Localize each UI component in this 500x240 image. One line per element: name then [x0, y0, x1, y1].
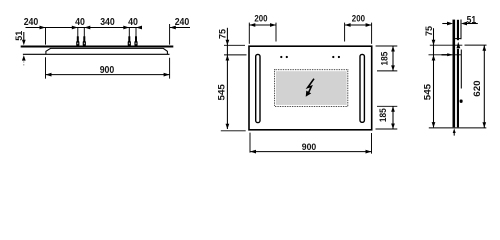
svg-text:185: 185	[378, 108, 388, 122]
side lower bracket bump	[460, 100, 463, 103]
620 arrow up	[482, 45, 486, 51]
545 arrow down tip mirror bottom	[226, 124, 230, 130]
side back bar	[457, 20, 459, 40]
top dim line main run	[26, 27, 142, 29]
mirror body back line	[23, 53, 170, 55]
200 right arrow right	[366, 23, 372, 27]
arrow left at x169.8	[170, 26, 176, 30]
900 arrow right	[164, 73, 170, 77]
side bracket back line	[460, 20, 462, 40]
svg-text:40: 40	[128, 17, 138, 28]
svg-text:900: 900	[302, 142, 317, 152]
svg-text:240: 240	[175, 17, 190, 28]
51 arrow down tip at glass top	[22, 40, 26, 46]
svg-text:75: 75	[424, 26, 434, 36]
side 545 arrow up tip y55	[432, 55, 436, 61]
900 middle arrow left	[250, 150, 256, 154]
185 lower arrow up	[391, 106, 395, 112]
svg-text:40: 40	[75, 17, 85, 28]
clip 3 barrel	[128, 36, 130, 41]
arrow right at x129.3	[123, 26, 129, 30]
200 left dim line	[249, 24, 276, 26]
arrow right at x45.5	[40, 26, 46, 30]
185 upper dim line	[392, 46, 394, 71]
185 lower dim line	[392, 106, 394, 129]
200 right dim line	[345, 24, 372, 26]
51 arrow left tip x461	[461, 22, 467, 26]
extension line x45.5	[45, 28, 47, 79]
620 dim line	[483, 45, 485, 127]
sensor dot 1	[280, 56, 282, 58]
clip extension line 3	[128, 28, 130, 38]
side ext line y45.2	[430, 44, 463, 46]
620 top ext line	[465, 44, 487, 46]
185 upper arrow down	[391, 65, 395, 71]
svg-text:185: 185	[379, 52, 389, 66]
svg-text:200: 200	[254, 13, 267, 23]
clip 1 barrel	[77, 36, 79, 41]
185 lower arrow down	[391, 124, 395, 130]
545 arrow up tip strip top	[226, 55, 230, 61]
mirror front rect	[249, 46, 372, 130]
arrow left at x84.3	[84, 26, 90, 30]
top dim line right 240 run	[170, 27, 190, 29]
900 middle dim line	[250, 151, 372, 153]
svg-text:545: 545	[217, 84, 227, 100]
mirror body white fill	[46, 48, 167, 54]
sensor dot 3	[332, 56, 334, 58]
200 left arrow right	[270, 23, 276, 27]
extension line x169.7	[169, 24, 171, 79]
185 upper arrow up	[391, 46, 395, 52]
200 extension line a	[248, 23, 250, 44]
ext line y130.3 middle	[221, 130, 246, 132]
900 middle arrow right	[366, 150, 372, 154]
clip 2 bead	[83, 41, 86, 46]
side hook ext line y54.8	[429, 54, 462, 56]
200 extension line c	[344, 23, 346, 42]
arrow right at x77.8	[72, 26, 78, 30]
900 arrow left	[46, 73, 52, 77]
svg-text:340: 340	[100, 17, 115, 28]
mirror body inner line with left jog	[46, 48, 167, 54]
side bracket wedge arrow up	[457, 42, 461, 48]
svg-text:200: 200	[352, 13, 365, 23]
svg-text:620: 620	[472, 80, 482, 96]
clip 4 barrel	[135, 36, 137, 41]
connection box grey fill	[276, 71, 347, 105]
51 grey tail	[23, 61, 25, 65]
200 left arrow left	[249, 23, 255, 27]
side left dim line vertical	[433, 28, 435, 127]
51 arrow right tip x453	[447, 22, 453, 26]
51 dim line upper	[23, 32, 25, 40]
51 arrow up tip at body bottom	[22, 55, 26, 61]
185 upper ext line y46	[376, 45, 398, 47]
lightning bolt	[308, 79, 314, 93]
side 75 arrow down tip y45.2	[432, 40, 436, 46]
side bracket bottom line	[455, 38, 461, 40]
side hook wedge	[442, 54, 448, 56]
clip extension line 1	[77, 28, 79, 38]
200 right arrow left	[345, 23, 351, 27]
svg-text:75: 75	[217, 29, 227, 39]
svg-text:545: 545	[423, 84, 433, 100]
75 arrow down tip mirror top	[226, 40, 230, 46]
svg-text:51: 51	[14, 31, 24, 41]
left light strip	[256, 54, 260, 122]
ext line y45.3 middle	[224, 44, 245, 46]
mirror glass bar (top view)	[21, 46, 174, 48]
right light strip	[360, 54, 364, 122]
185 mid ext line y70.9	[377, 70, 397, 72]
200 extension line d	[371, 23, 373, 44]
clip 2 barrel	[83, 36, 85, 41]
svg-text:51: 51	[467, 15, 477, 26]
sensor dot 2	[286, 56, 288, 58]
clip extension line 2	[83, 28, 85, 38]
clip 4 bead	[134, 41, 137, 46]
900 middle ext line right	[371, 133, 373, 154]
side glass bar	[453, 20, 456, 128]
arrow left at x136	[136, 26, 142, 30]
svg-text:900: 900	[100, 65, 115, 76]
ext line y54.9 middle	[224, 54, 247, 56]
clip 1 bead	[76, 41, 79, 46]
900 dim line left view	[46, 74, 170, 76]
900 middle ext line left	[249, 133, 251, 153]
side 545 arrow down tip bottom	[432, 122, 436, 128]
middle left dim line vertical	[226, 28, 228, 129]
clip extension line 4	[135, 28, 137, 38]
clip 3 bead	[128, 41, 131, 46]
185 lower ext line y129	[376, 128, 398, 130]
620 arrow down	[482, 122, 486, 128]
connection box dotted border	[275, 70, 348, 107]
side bottom stub arrow	[453, 128, 456, 133]
51 dim line left part	[442, 23, 447, 25]
185 mid ext line y106.3	[377, 105, 397, 107]
side ext line bottom y127.9	[429, 127, 487, 129]
200 extension line b	[275, 23, 277, 42]
sensor dot 4	[338, 56, 340, 58]
51 dim line right part	[467, 23, 478, 25]
svg-text:240: 240	[24, 17, 39, 28]
